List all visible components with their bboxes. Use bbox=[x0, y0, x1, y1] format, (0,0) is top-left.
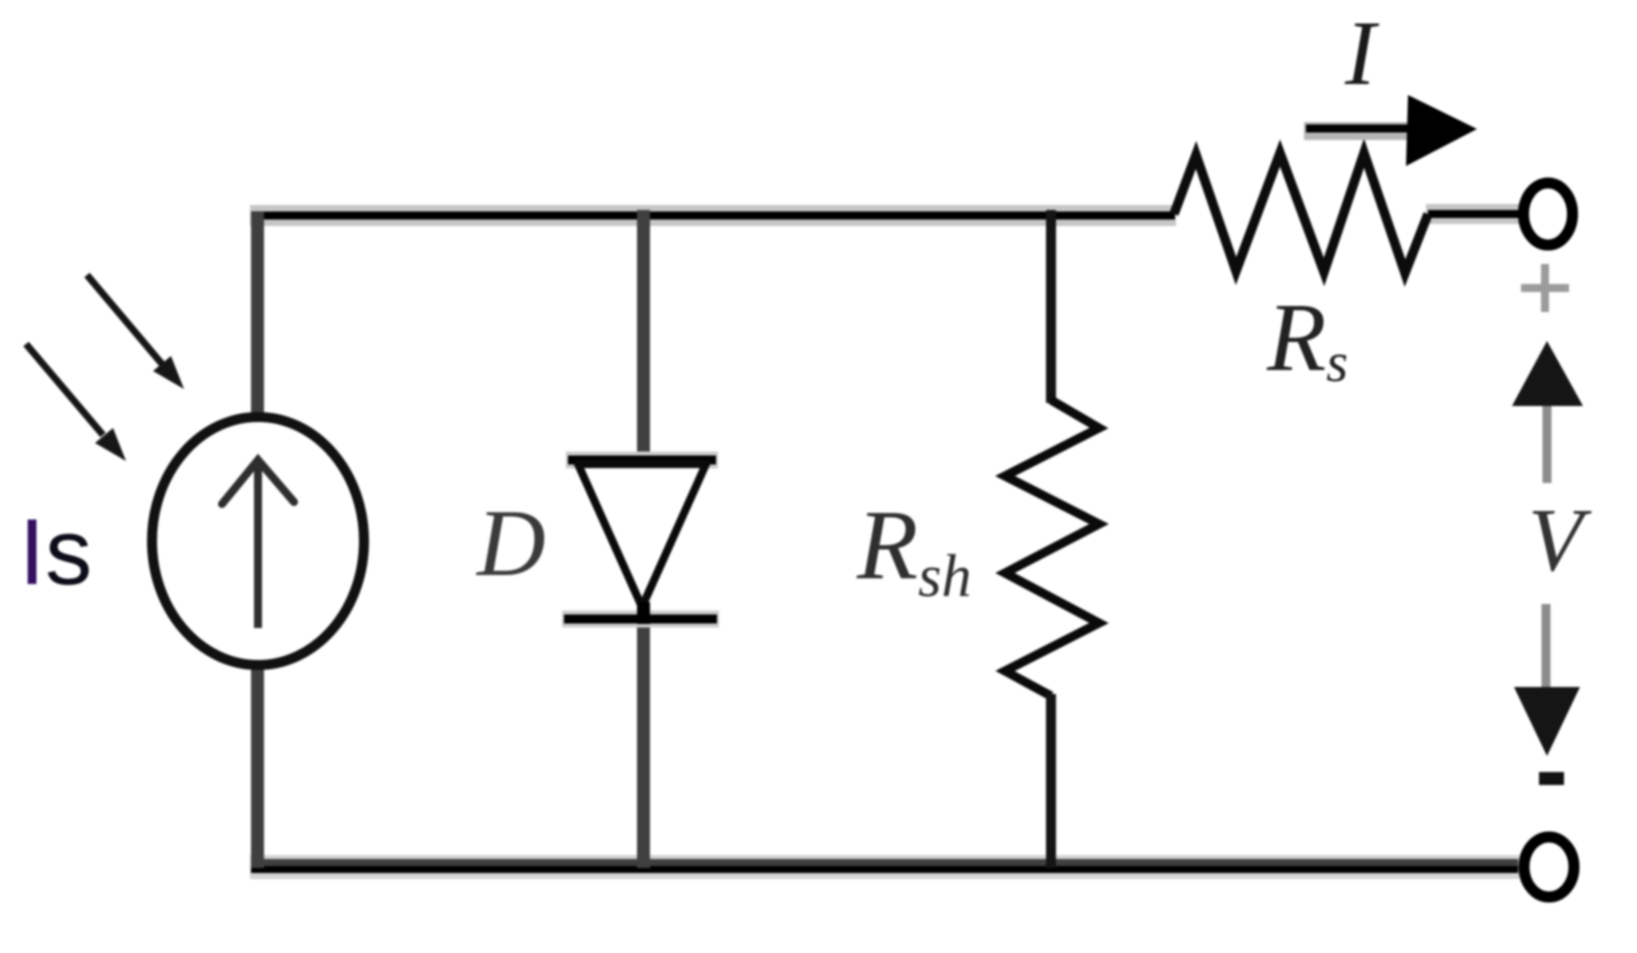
current source Is bbox=[152, 417, 364, 665]
wire: bottom rail bbox=[250, 866, 1519, 870]
diode D bbox=[562, 460, 719, 624]
light ray arrow 1 bbox=[87, 275, 184, 389]
light ray arrow 2 bbox=[26, 344, 126, 461]
wire: top rail right segment (Rs to + terminal) bbox=[1426, 204, 1521, 224]
terminal: + output node bbox=[1524, 183, 1573, 245]
minus sign bbox=[1539, 772, 1564, 785]
wire: Rsh branch vertical bottom bbox=[1046, 694, 1056, 868]
wire: diode branch vertical (anode lead) bbox=[637, 210, 650, 458]
wire: diode branch vertical (cathode lead) bbox=[637, 615, 650, 868]
svg-text:I: I bbox=[1344, 2, 1380, 104]
plus sign bbox=[1521, 264, 1569, 312]
resistor Rs bbox=[1174, 153, 1428, 273]
resistor Rsh bbox=[1005, 400, 1099, 696]
wire: left branch vertical (current source leads) bbox=[251, 212, 264, 868]
svg-text:D: D bbox=[475, 490, 546, 596]
wire: Rsh branch vertical top bbox=[1046, 210, 1056, 403]
voltage arrow down bbox=[1514, 604, 1580, 756]
current arrow I bbox=[1304, 95, 1477, 166]
voltage arrow up bbox=[1512, 341, 1583, 483]
svg-text:Is: Is bbox=[19, 499, 92, 604]
wire: top rail (node A to Rs) bbox=[250, 205, 1176, 226]
svg-text:V: V bbox=[1528, 491, 1592, 590]
terminal: - output node bbox=[1524, 837, 1574, 897]
